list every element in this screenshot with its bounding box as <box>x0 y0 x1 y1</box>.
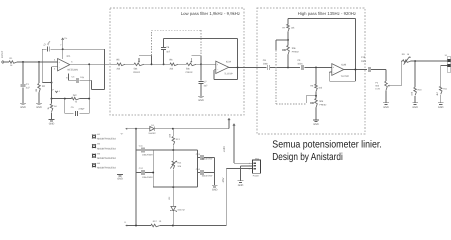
svg-text:MOUNT-HOLE3.0: MOUNT-HOLE3.0 <box>97 167 116 170</box>
capacitor C7 4n7 <box>200 64 202 80</box>
potentiometer P2 <box>196 63 201 65</box>
wire feedback vertical <box>88 64 90 98</box>
svg-text:Design by Anistardi: Design by Anistardi <box>272 152 343 163</box>
wire left rail <box>135 129 137 226</box>
diode D1 1N4007 <box>150 126 154 131</box>
svg-text:MOUNT-HOLE3.0: MOUNT-HOLE3.0 <box>97 157 116 160</box>
svg-text:PRE02: PRE02 <box>133 71 141 74</box>
node junction B <box>38 61 40 63</box>
svg-text:100n: 100n <box>263 62 269 65</box>
svg-text:Power: Power <box>253 174 259 177</box>
mount hole H1 <box>92 135 96 139</box>
svg-text:GND: GND <box>438 106 444 109</box>
wire <box>414 96 416 103</box>
ground <box>412 102 418 104</box>
svg-text:Semua potensiometer linier.: Semua potensiometer linier. <box>272 139 382 150</box>
wire <box>152 63 164 65</box>
ground mount <box>117 173 123 175</box>
resistor R5 2k2 <box>110 63 117 65</box>
wire upper out line <box>401 60 402 62</box>
wire IC2A feedback <box>214 69 216 71</box>
resistor R9 trimmer <box>403 60 411 63</box>
svg-text:PRE02: PRE02 <box>186 71 194 74</box>
wire feedback top <box>164 38 238 40</box>
capacitor C4 comp <box>69 79 76 81</box>
ground <box>438 102 444 104</box>
capacitor C14 100uF/25V <box>198 172 200 174</box>
high pass filter dashed box <box>257 8 365 134</box>
node pin7 junction <box>62 48 64 50</box>
svg-text:1N4007: 1N4007 <box>148 132 156 135</box>
node output junction <box>88 63 90 65</box>
capacitor C9 100n <box>301 65 303 70</box>
wire <box>305 66 332 68</box>
svg-text:100uF/25V: 100uF/25V <box>202 157 213 160</box>
svg-text:GND: GND <box>313 123 319 126</box>
wire <box>38 93 40 103</box>
potentiometer P4 <box>315 91 317 98</box>
resistor R12 10 <box>151 224 160 227</box>
resistor R4 1k <box>51 99 53 104</box>
node V- arrow <box>125 225 127 227</box>
op-amp IC1 <box>58 59 70 71</box>
ground <box>49 118 55 120</box>
wire feedback line <box>52 98 72 100</box>
wire IC2B feedback <box>329 71 332 73</box>
resistor R1 1k <box>9 61 17 64</box>
svg-text:100uF/50V: 100uF/50V <box>142 153 153 156</box>
svg-text:IC2A: IC2A <box>226 61 232 64</box>
svg-text:PRE02: PRE02 <box>319 104 327 107</box>
svg-text:LOG: LOG <box>375 87 380 90</box>
capacitor C10 100n out <box>367 67 369 72</box>
svg-text:V-: V- <box>52 89 54 92</box>
trimmer R14 <box>172 150 174 161</box>
svg-text:V-: V- <box>124 221 126 224</box>
ground <box>198 95 204 97</box>
svg-text:3: 3 <box>249 167 250 170</box>
wire gnd branch <box>214 158 216 186</box>
wire SV1 pin2 gnd <box>241 165 253 167</box>
ground <box>20 102 26 104</box>
wire center box <box>153 149 197 151</box>
svg-text:INPUT: INPUT <box>1 50 4 58</box>
capacitor C1 4u7 <box>21 84 26 86</box>
svg-text:100n: 100n <box>361 60 367 63</box>
capacitor C13 100uF/25V <box>198 157 200 159</box>
capacitor C12 100uF/50V <box>136 172 141 174</box>
node <box>172 225 174 227</box>
wire output LPF <box>229 66 267 68</box>
node <box>172 128 174 130</box>
svg-text:GND: GND <box>198 99 204 102</box>
op-amp IC2B <box>332 64 344 76</box>
svg-text:GND: GND <box>383 106 389 109</box>
svg-text:100n: 100n <box>297 62 303 65</box>
svg-text:1: 1 <box>249 162 250 165</box>
wire R13 branch <box>172 129 174 136</box>
wire <box>270 66 300 68</box>
wire R7 branch <box>287 19 289 25</box>
svg-text:IC2B: IC2B <box>341 63 347 66</box>
svg-text:MOUNT-HOLE3.0: MOUNT-HOLE3.0 <box>97 147 116 150</box>
low pass filter dashed box <box>110 8 244 115</box>
svg-text:GND: GND <box>36 106 42 109</box>
svg-text:GND: GND <box>212 188 218 191</box>
connector SV1 power <box>253 160 261 173</box>
resistor R2 1M <box>38 84 41 93</box>
svg-text:100uF/25V: 100uF/25V <box>202 174 213 177</box>
wire R10 branch <box>414 61 416 87</box>
zener D2 below box <box>172 187 174 206</box>
potentiometer P5 volume <box>385 81 388 90</box>
resistor R11 4k7 <box>439 86 442 94</box>
mount hole H2 <box>92 144 96 148</box>
svg-text:+15V: +15V <box>223 146 226 153</box>
wire input line <box>6 61 10 63</box>
resistor R10 10k <box>414 87 417 95</box>
svg-text:NE5534N: NE5534N <box>68 69 79 72</box>
svg-text:TL072P: TL072P <box>224 72 233 75</box>
svg-text:IC1: IC1 <box>67 55 72 58</box>
svg-text:PRE02: PRE02 <box>292 51 300 54</box>
ground <box>313 119 319 121</box>
svg-text:-15V: -15V <box>222 177 225 183</box>
capacitor C8 100n <box>266 65 268 70</box>
svg-text:GND: GND <box>20 106 26 109</box>
node V+ arrow <box>125 128 127 130</box>
mount hole H4 <box>92 163 96 167</box>
svg-text:GND: GND <box>412 106 418 109</box>
wire V+ rail <box>126 128 150 130</box>
svg-text:C10: C10 <box>361 56 366 59</box>
svg-text:GND: GND <box>49 122 55 125</box>
wire R8 branch <box>315 67 317 84</box>
wire comp loop <box>63 48 105 50</box>
capacitor C11 100uF/50V <box>136 149 141 151</box>
capacitor C6 4n7 feedback <box>163 39 165 48</box>
ground <box>36 102 42 104</box>
resistor R6 2k2 <box>164 63 170 65</box>
wire V+ stub <box>62 39 64 49</box>
wire gang dashed 2 <box>275 50 277 104</box>
resistor R7 10k <box>287 24 290 31</box>
wire cap loop <box>64 99 66 114</box>
svg-text:1M: 1M <box>35 89 38 92</box>
ground <box>212 184 218 186</box>
svg-text:1N4742: 1N4742 <box>177 208 185 211</box>
wire <box>51 112 53 119</box>
capacitor C5 220pF <box>75 111 77 116</box>
node junction A <box>22 61 24 63</box>
wire pin8 stub <box>68 74 70 81</box>
wire output <box>70 63 110 65</box>
wire +15V branch <box>233 124 235 126</box>
connector X1 output jack <box>447 57 451 73</box>
wire P4 wiper bracket <box>306 95 316 97</box>
wire jack pin2 <box>441 65 448 67</box>
svg-text:GND: GND <box>238 184 244 187</box>
ground <box>383 102 389 104</box>
potentiometer P1 <box>144 63 152 65</box>
wire V- rail <box>126 225 151 227</box>
svg-text:High pass filter 135Hz - 920Hz: High pass filter 135Hz - 920Hz <box>298 11 356 16</box>
ground <box>238 180 244 182</box>
resistor R8 10k <box>315 84 318 91</box>
wire wiper out <box>389 85 401 87</box>
node INPUT terminal <box>2 61 4 63</box>
wire feedback top HPF <box>288 18 355 20</box>
wire <box>22 87 24 102</box>
mount hole H3 <box>92 154 96 158</box>
wire <box>38 62 40 83</box>
resistor R3 2k2 feedback <box>71 97 79 100</box>
svg-text:220pF: 220pF <box>78 108 85 111</box>
wire +15V rail arrow <box>228 119 230 128</box>
wire <box>41 49 43 82</box>
wire -15V branch <box>225 169 227 226</box>
wire V- mark <box>55 91 57 93</box>
wire <box>22 62 24 84</box>
resistor R13 100 <box>172 137 175 146</box>
svg-text:TL072P: TL072P <box>341 75 350 78</box>
svg-text:GND: GND <box>117 177 123 180</box>
wire P1 wiper bracket <box>139 55 152 57</box>
wire <box>371 69 386 71</box>
wire <box>385 90 387 102</box>
potentiometer P3 <box>287 40 289 46</box>
wire output HPF <box>344 69 367 71</box>
svg-text:MOUNT-HOLE3.0: MOUNT-HOLE3.0 <box>97 138 116 141</box>
wire inverting input <box>52 66 58 68</box>
wire <box>440 95 442 103</box>
svg-text:Low pass filter 1,9kHz - 9,9kH: Low pass filter 1,9kHz - 9,9kHz <box>181 11 240 16</box>
wire <box>201 63 216 65</box>
wire P3 wiper bracket <box>276 39 288 41</box>
wire gang dashed <box>151 30 153 56</box>
svg-text:100uF/50V: 100uF/50V <box>142 176 153 179</box>
op-amp IC2A <box>216 61 229 73</box>
wire P2 wiper bracket <box>191 55 201 57</box>
capacitor C2 100n bypass <box>42 48 46 50</box>
